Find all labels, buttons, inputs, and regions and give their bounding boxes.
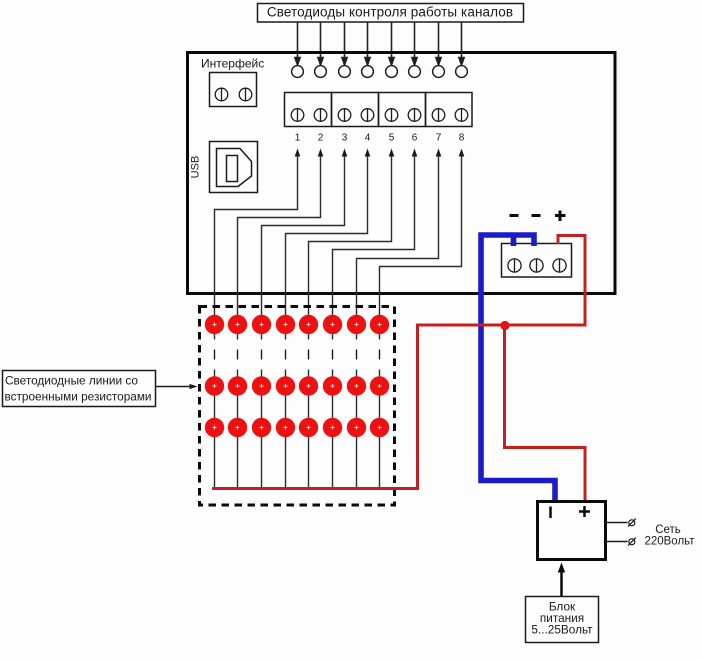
svg-text:8: 8 bbox=[459, 133, 465, 144]
label box: Светодиодные линии со встроенными резисторами bbox=[3, 371, 156, 407]
red wire (plus) main run bbox=[212, 236, 585, 489]
svg-text:Светодиодные линии со: Светодиодные линии со bbox=[5, 374, 138, 388]
label arrow to LED matrix bbox=[156, 384, 198, 389]
svg-text:7: 7 bbox=[436, 133, 442, 144]
svg-text:встроенными резисторами: встроенными резисторами bbox=[5, 390, 152, 404]
label box: Светодиоды контроля работы каналов bbox=[258, 4, 524, 23]
svg-text:220Вольт: 220Вольт bbox=[644, 536, 695, 548]
wire up-arrowheads at terminals bbox=[295, 149, 465, 157]
svg-text:3: 3 bbox=[342, 133, 348, 144]
red wire branch to PSU + bbox=[505, 325, 586, 502]
mains stub 1 bbox=[606, 522, 628, 524]
mains terminal symbol 1 bbox=[628, 519, 636, 527]
LEDs row 2 bbox=[205, 376, 389, 395]
interface terminal block bbox=[210, 73, 257, 107]
svg-text:USB: USB bbox=[190, 156, 202, 179]
arrows from label to indicator LEDs 1-8 bbox=[295, 22, 464, 65]
channel terminal block (4 groups) bbox=[285, 93, 473, 127]
svg-text:1: 1 bbox=[295, 133, 301, 144]
svg-text:5: 5 bbox=[389, 133, 395, 144]
controller box bbox=[188, 53, 616, 294]
svg-text:Светодиоды контроля работы кан: Светодиоды контроля работы каналов bbox=[267, 5, 513, 20]
svg-text:4: 4 bbox=[365, 133, 371, 144]
USB connector bbox=[210, 142, 258, 193]
polarity marks - - + bbox=[510, 211, 566, 222]
mains stub 2 bbox=[606, 541, 628, 543]
LED matrix dashed box bbox=[200, 307, 395, 506]
screw bbox=[215, 88, 228, 101]
PSU minus mark bbox=[549, 507, 552, 519]
svg-text:Сеть: Сеть bbox=[655, 524, 681, 536]
svg-text:6: 6 bbox=[412, 133, 418, 144]
power supply box bbox=[538, 502, 606, 560]
power terminal block bbox=[502, 244, 572, 278]
terminal screws 1-8 bbox=[291, 109, 468, 122]
mains terminal symbol 2 bbox=[628, 538, 636, 546]
label box: Блок питания 5...25Вольт bbox=[526, 597, 599, 643]
screw bbox=[508, 259, 521, 272]
red junction dot bbox=[500, 321, 509, 330]
channel wires 1-8 (terminal to LED column) bbox=[215, 156, 462, 340]
terminal numbers 1-8 bbox=[295, 133, 465, 144]
svg-text:5...25Вольт: 5...25Вольт bbox=[531, 623, 593, 637]
screw bbox=[553, 259, 566, 272]
svg-text:2: 2 bbox=[318, 133, 324, 144]
blue wire (minus) bbox=[481, 235, 555, 502]
LED column break dashes bbox=[215, 350, 380, 360]
screw bbox=[530, 259, 543, 272]
indicator LEDs (white circles) bbox=[292, 66, 468, 78]
PSU plus mark bbox=[579, 506, 590, 517]
PSU label arrow bbox=[558, 563, 565, 597]
LEDs row 1 bbox=[205, 315, 389, 334]
LED column lower lines bbox=[215, 370, 380, 490]
screw bbox=[239, 88, 252, 101]
svg-text:Интерфейс: Интерфейс bbox=[201, 57, 264, 71]
LEDs row 3 bbox=[205, 418, 389, 437]
